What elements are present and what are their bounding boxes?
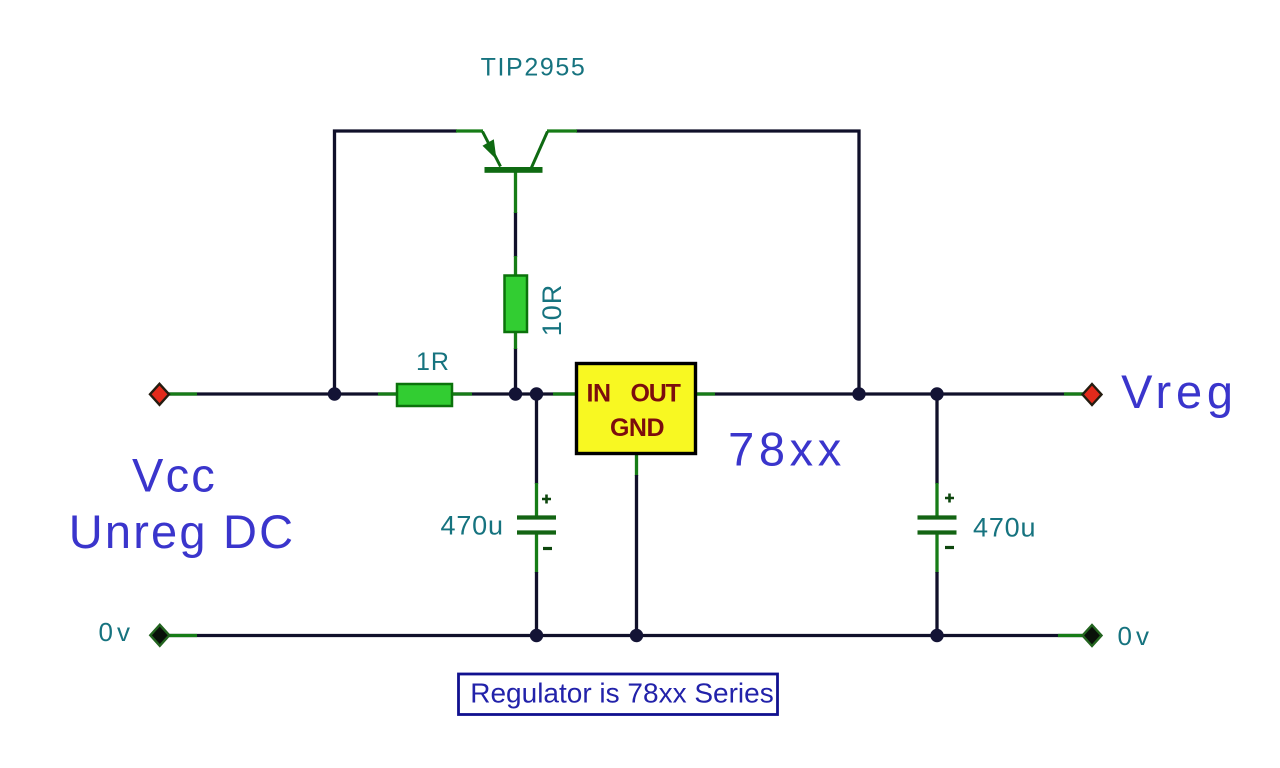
- svg-text:470u: 470u: [441, 511, 504, 541]
- terminal Vreg (red diamond): [1083, 384, 1102, 405]
- wire lead C2 bottom plate: [935, 532, 938, 573]
- svg-text:78xx: 78xx: [728, 423, 846, 476]
- junction node C1 at 0v rail: [530, 629, 543, 642]
- wire lead at Vcc terminal: [165, 392, 197, 395]
- wire Vcc rail (left terminal to regulator IN): [160, 392, 576, 395]
- regulator U1 78xx (yellow body): [577, 364, 696, 454]
- svg-text:0v: 0v: [99, 617, 134, 647]
- svg-text:0v: 0v: [1118, 621, 1153, 651]
- wire 10R bottom to input node: [514, 348, 517, 394]
- svg-text:IN: IN: [587, 380, 611, 408]
- resistor R1 1R: [397, 384, 452, 406]
- wire C1 top (input node down to capacitor): [535, 394, 538, 484]
- svg-text:GND: GND: [610, 414, 664, 442]
- polarity minus C1: [543, 547, 552, 550]
- wire lead 10R top: [514, 256, 517, 277]
- note box: Regulator is 78xx Series: [459, 674, 778, 715]
- wire lead C1 bottom plate: [535, 532, 538, 573]
- svg-text:Vreg: Vreg: [1121, 365, 1238, 418]
- wire left vertical (Vcc node up to transistor emitter): [335, 131, 458, 394]
- wire transistor base down to 10R: [514, 212, 517, 257]
- wire lead 1R right: [451, 392, 472, 395]
- junction node at C1 branch: [530, 387, 543, 400]
- capacitor C1 470u plates: [517, 518, 556, 533]
- svg-text:470u: 470u: [973, 513, 1036, 543]
- wire lead C2 top plate: [935, 483, 938, 517]
- wire lead Vreg terminal: [1064, 392, 1086, 395]
- wire lead 1R left: [378, 392, 398, 395]
- wire lead transistor base: [514, 171, 517, 213]
- wire lead transistor emitter: [456, 129, 483, 132]
- junction node at C2 branch: [930, 387, 943, 400]
- junction node at 10R base branch: [509, 387, 522, 400]
- wire regulator GND down to 0v rail: [635, 475, 638, 636]
- wire C2 bottom to 0v rail: [935, 572, 938, 636]
- wire lead C1 top plate: [535, 483, 538, 517]
- wire top right (transistor collector to output node): [576, 131, 859, 394]
- wire C1 bottom to 0v rail: [535, 572, 538, 636]
- wire regulator OUT to Vreg terminal: [697, 392, 1090, 395]
- polarity plus C2: [945, 494, 954, 503]
- svg-text:TIP2955: TIP2955: [481, 54, 587, 82]
- transistor Q1 TIP2955 (PNP): [483, 132, 548, 173]
- wire lead transistor collector: [547, 129, 577, 132]
- resistor R2 10R: [505, 276, 528, 333]
- terminal Vcc (red diamond): [150, 384, 169, 405]
- wire lead regulator OUT pin: [696, 392, 715, 395]
- wire lead 10R bottom: [514, 331, 517, 349]
- svg-text:Vcc: Vcc: [132, 449, 217, 502]
- terminal 0v right (black diamond): [1083, 625, 1102, 646]
- wire lead regulator GND pin: [635, 454, 638, 476]
- svg-text:OUT: OUT: [631, 380, 681, 408]
- svg-text:1R: 1R: [416, 348, 450, 376]
- wire lead 0v left terminal: [166, 634, 197, 637]
- junction node at Vcc / emitter branch: [328, 387, 341, 400]
- polarity minus C2: [945, 546, 954, 549]
- wire lead regulator IN pin: [553, 392, 576, 395]
- wire 0v rail: [160, 634, 1091, 637]
- svg-text:10R: 10R: [537, 284, 567, 337]
- svg-text:Unreg DC: Unreg DC: [69, 505, 296, 558]
- wire C2 top (output node down to capacitor): [935, 394, 938, 484]
- junction node at collector / output: [852, 387, 865, 400]
- junction node C2 at 0v rail: [930, 629, 943, 642]
- polarity plus C1: [542, 495, 551, 504]
- svg-text:Regulator is 78xx Series: Regulator is 78xx Series: [470, 678, 773, 709]
- junction node GND at 0v rail: [630, 629, 643, 642]
- terminal 0v left (black diamond): [150, 625, 169, 646]
- wire lead 0v right terminal: [1058, 634, 1085, 637]
- capacitor C2 470u plates: [918, 518, 957, 533]
